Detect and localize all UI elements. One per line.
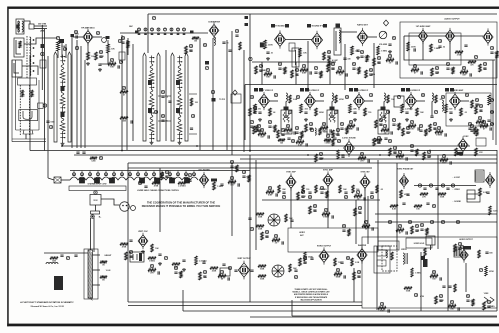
- callout blob: [305, 88, 309, 92]
- wire: [212, 38, 214, 150]
- part callout: [408, 220, 411, 224]
- capacitor: [435, 188, 438, 189]
- wire: [153, 171, 155, 177]
- part callout: [462, 66, 465, 70]
- slug adjust: [148, 108, 152, 113]
- part callout: [433, 122, 436, 126]
- svg-text:100K: 100K: [258, 217, 263, 219]
- part callout: [105, 172, 108, 176]
- svg-text:DAMPER: DAMPER: [358, 244, 367, 247]
- callout blob: [307, 24, 311, 28]
- part callout: [490, 122, 493, 126]
- picture tube CRT neck lines: [492, 60, 494, 140]
- svg-text:.01: .01: [275, 243, 278, 245]
- resistor: [320, 71, 322, 78]
- capacitor: [118, 65, 119, 68]
- resistor: [178, 181, 186, 184]
- part callout: [73, 172, 76, 176]
- tube V11 sync sep: [286, 173, 296, 190]
- part callout: [320, 186, 323, 190]
- capacitor: [358, 212, 361, 213]
- pilot lamp: [185, 178, 190, 183]
- wire: [12, 141, 46, 143]
- resistor: [334, 258, 336, 266]
- gang dashed line 2: [19, 85, 21, 135]
- balun coil left: [18, 21, 19, 32]
- socket housing: [131, 206, 136, 211]
- svg-text:← SOUND: ← SOUND: [452, 201, 461, 203]
- capacitor: [287, 138, 290, 139]
- wire: [25, 134, 27, 139]
- resistor: [161, 172, 164, 180]
- pilot lamp frame: [155, 178, 160, 183]
- RF tuner box: [14, 38, 24, 57]
- svg-text:.001: .001: [304, 108, 308, 110]
- part callout: [327, 50, 330, 54]
- capacitor: [228, 277, 229, 280]
- wire B+ bus 1: [62, 145, 470, 147]
- capacitor: [320, 192, 323, 193]
- capacitor: [450, 161, 451, 164]
- callout blob: [271, 24, 275, 28]
- svg-text:.05: .05: [357, 199, 360, 201]
- phase det cross 2: [272, 265, 284, 277]
- svg-text:115V: 115V: [93, 200, 98, 202]
- resistor: [320, 127, 328, 130]
- svg-text:1 MEG: 1 MEG: [325, 143, 331, 145]
- label blob 6SN7: [211, 179, 217, 182]
- svg-text:1500: 1500: [122, 121, 126, 123]
- resistor: [475, 106, 478, 114]
- tuning coil L2: [30, 45, 31, 53]
- resistor: [289, 264, 291, 272]
- capacitor: [438, 46, 441, 47]
- resistor: [430, 44, 433, 52]
- resistor: [180, 271, 182, 278]
- junction: [429, 150, 431, 152]
- wire top bus: [148, 13, 497, 15]
- wire: [87, 43, 89, 53]
- part callout: [319, 152, 322, 156]
- svg-text:39K: 39K: [353, 108, 357, 110]
- part callout: [169, 172, 172, 176]
- capacitor: [415, 230, 418, 231]
- part callout: [370, 195, 373, 199]
- part callout: [122, 86, 125, 90]
- svg-text:.01: .01: [389, 63, 392, 65]
- part callout: [228, 266, 231, 270]
- wire: [344, 44, 346, 90]
- capacitor: [310, 258, 313, 259]
- part callout: [468, 122, 471, 126]
- wire: [47, 56, 49, 150]
- capacitor: [470, 130, 473, 131]
- wire: [189, 93, 197, 95]
- resistor: [148, 269, 156, 272]
- junction: [379, 154, 381, 156]
- resistor: [269, 108, 272, 116]
- svg-text:1 MEG: 1 MEG: [436, 135, 442, 137]
- pilot lamp frame: [185, 178, 190, 183]
- resistor: [396, 229, 404, 232]
- part callout: [393, 146, 396, 150]
- wire: [373, 43, 375, 88]
- twin lead wire: [34, 28, 47, 30]
- resistor: [353, 272, 356, 280]
- resistor: [300, 104, 303, 113]
- capacitor: [344, 275, 345, 278]
- resistor: [445, 104, 448, 113]
- capacitor: [222, 264, 225, 265]
- peaking coil: [432, 93, 433, 101]
- resistor: [426, 228, 428, 235]
- junction: [249, 150, 251, 152]
- phase detector: [268, 214, 280, 226]
- callout blob: [285, 24, 289, 28]
- svg-text:VIDEO AMP: VIDEO AMP: [453, 89, 464, 92]
- resistor: [376, 185, 378, 193]
- svg-text:← VIDEO: ← VIDEO: [452, 189, 460, 191]
- resistor: [192, 36, 199, 39]
- resistor: [358, 157, 366, 160]
- wire: [414, 185, 476, 187]
- gang dashed line 3: [29, 85, 31, 135]
- svg-text:.01: .01: [270, 53, 273, 55]
- svg-text:SYNC AMP: SYNC AMP: [323, 169, 334, 172]
- capacitor: [268, 135, 269, 138]
- part callout: [456, 220, 459, 224]
- svg-text:56K: 56K: [289, 218, 293, 220]
- resistor: [365, 70, 368, 78]
- part callout: [320, 93, 323, 97]
- svg-text:10K: 10K: [155, 248, 159, 250]
- capacitor: [391, 131, 392, 134]
- part callout: [451, 184, 454, 188]
- tube V4 ratio det: [357, 28, 368, 46]
- capacitor bus bypass: [82, 152, 85, 153]
- resistor: [300, 69, 308, 72]
- capacitor: [161, 120, 164, 121]
- part callout: [153, 172, 156, 176]
- capacitor: [377, 62, 380, 63]
- svg-text:6.8K: 6.8K: [268, 195, 273, 197]
- part callout: [364, 220, 367, 224]
- part callout: [314, 66, 317, 70]
- part callout: [450, 300, 453, 304]
- wire: [231, 31, 233, 155]
- vert linearity box: [220, 268, 230, 276]
- wire: [132, 44, 134, 141]
- part callout: [392, 36, 395, 40]
- svg-text:8.2K: 8.2K: [392, 209, 397, 211]
- resistor: [302, 185, 304, 193]
- wire: [376, 246, 378, 310]
- part callout: [380, 302, 383, 306]
- tube video IF stage: [305, 92, 316, 110]
- wire: [331, 101, 333, 116]
- capacitor: [353, 112, 356, 113]
- part callout: [250, 95, 253, 99]
- part callout: [138, 181, 141, 185]
- audio inner enclosure: [409, 33, 461, 65]
- capacitor: [250, 126, 253, 127]
- part callout: [427, 150, 430, 154]
- svg-text:YOKE: YOKE: [484, 293, 490, 295]
- small transformer box: [467, 194, 480, 202]
- callout blob: [450, 88, 454, 92]
- capacitor: [60, 255, 63, 256]
- wire: [16, 40, 21, 54]
- wire: [73, 36, 83, 38]
- resistor: [315, 154, 318, 162]
- resistor: [50, 256, 58, 259]
- part callout: [334, 110, 337, 114]
- wire: [341, 31, 357, 33]
- resistor: [274, 125, 276, 132]
- capacitor: [364, 197, 365, 200]
- svg-text:HORIZ OUTPUT: HORIZ OUTPUT: [317, 246, 332, 248]
- part callout: [257, 124, 260, 128]
- capacitor: [295, 132, 298, 133]
- resistor: [373, 58, 376, 66]
- svg-text:CHANNEL INPUT CONV: CHANNEL INPUT CONV: [87, 183, 107, 186]
- wire: [290, 187, 292, 228]
- part callout: [242, 170, 245, 174]
- width coil: [403, 253, 404, 264]
- coupling box: [289, 43, 295, 51]
- tube V8 sound det: [344, 139, 355, 157]
- svg-text:27K: 27K: [479, 152, 483, 154]
- part callout: [205, 66, 208, 70]
- wire: [129, 171, 131, 177]
- callout blob: [254, 88, 258, 92]
- part callout: [145, 172, 148, 176]
- svg-text:.05: .05: [339, 75, 342, 77]
- svg-text:68: 68: [273, 112, 275, 114]
- resistor: [334, 273, 342, 276]
- part callout: [460, 245, 463, 249]
- part callout: [324, 208, 327, 212]
- ratio detector transformer T6: [334, 28, 341, 55]
- svg-text:100: 100: [91, 56, 94, 58]
- part callout: [188, 173, 191, 177]
- resistor: [301, 131, 303, 138]
- resistor: [249, 108, 252, 116]
- callout blob: [445, 88, 449, 92]
- svg-text:2.2 MEG: 2.2 MEG: [405, 108, 413, 110]
- balun coil right: [22, 21, 23, 32]
- part callout: [441, 220, 444, 224]
- part callout: [41, 52, 44, 56]
- part callout: [438, 39, 441, 43]
- capacitor: [448, 286, 451, 287]
- horiz control box: [406, 238, 432, 248]
- capacitor: [268, 126, 271, 127]
- wire: [250, 316, 497, 318]
- part callout: [152, 16, 155, 20]
- part callout: [220, 270, 223, 274]
- svg-text:470K: 470K: [411, 45, 416, 48]
- width assembly box: [378, 241, 399, 250]
- connector box: [231, 94, 241, 103]
- capacitor: [344, 192, 347, 193]
- resistor: [190, 98, 192, 106]
- junction: [61, 145, 63, 147]
- wire: [41, 25, 43, 90]
- part callout: [235, 29, 238, 33]
- part callout: [490, 98, 493, 102]
- resistor: [354, 195, 362, 198]
- part callout: [419, 124, 422, 128]
- svg-text:SYNC INV: SYNC INV: [361, 172, 371, 174]
- part callout: [177, 172, 180, 176]
- wire: [161, 171, 163, 177]
- wire: [24, 38, 57, 44]
- test point diamond 2: [233, 90, 237, 95]
- capacitor: [189, 50, 192, 51]
- resistor: [258, 133, 266, 136]
- part callout: [331, 62, 334, 66]
- tube video IF stage: [259, 92, 270, 110]
- tube V17 damper: [357, 246, 367, 263]
- capacitor: [388, 309, 389, 312]
- svg-text:68: 68: [221, 279, 223, 281]
- wire: [189, 133, 197, 135]
- resistor: [256, 125, 258, 132]
- resistor: [386, 59, 394, 62]
- wire: [368, 36, 377, 38]
- wire: [81, 171, 83, 177]
- part callout: [191, 114, 194, 118]
- resistor: [324, 138, 331, 141]
- svg-text:270K: 270K: [457, 55, 462, 57]
- part callout: [388, 54, 391, 58]
- resistor: [348, 229, 350, 236]
- part callout: [336, 268, 339, 272]
- ground: [353, 118, 357, 121]
- part callout: [413, 64, 416, 68]
- wire: [73, 171, 75, 177]
- resistor: [228, 181, 236, 184]
- pilot lamp: [140, 178, 145, 183]
- part callout: [357, 270, 360, 274]
- ratio det coil: [339, 30, 340, 43]
- part callout: [211, 90, 214, 94]
- part callout: [308, 195, 311, 199]
- wire: [128, 167, 372, 169]
- capacitor: [301, 196, 304, 197]
- svg-text:10K: 10K: [391, 99, 395, 101]
- tube V7 audio out: [483, 28, 493, 45]
- part callout: [420, 223, 423, 227]
- capacitor: [248, 218, 251, 219]
- resistor: [471, 100, 474, 108]
- part callout: [344, 195, 347, 199]
- part callout: [230, 160, 233, 164]
- resistor: [402, 128, 405, 136]
- resistor: [299, 258, 302, 266]
- svg-text:VERT OSC: VERT OSC: [138, 231, 148, 233]
- capacitor: [336, 134, 339, 135]
- capacitor: [282, 241, 283, 244]
- resistor: [31, 90, 34, 97]
- capacitor: [487, 120, 490, 121]
- capacitor: [372, 227, 373, 230]
- wire: [422, 41, 424, 60]
- capacitor: [458, 248, 461, 249]
- inner box 2: [377, 260, 386, 266]
- wire: [375, 221, 497, 223]
- part callout: [274, 234, 277, 238]
- resistor: [468, 60, 476, 63]
- wire: [158, 95, 171, 97]
- part callout: [346, 256, 349, 260]
- part callout: [253, 106, 256, 110]
- part callout: [278, 62, 281, 66]
- capacitor: [470, 73, 471, 76]
- resistor: [472, 299, 474, 306]
- wire line cord: [90, 218, 92, 250]
- svg-text:500: 500: [489, 253, 492, 255]
- antenna balun T1: [16, 19, 24, 34]
- wire: [65, 44, 67, 58]
- part callout: [154, 110, 157, 114]
- resistor: [375, 120, 378, 128]
- resistor: [100, 275, 107, 278]
- wire: [329, 62, 331, 85]
- resistor: [261, 232, 264, 240]
- wire: [262, 199, 380, 201]
- resistor: [378, 307, 386, 310]
- svg-text:47: 47: [123, 94, 125, 97]
- wire: [61, 179, 70, 181]
- svg-text:3K: 3K: [102, 265, 105, 267]
- resistor: [337, 150, 340, 159]
- capacitor: [370, 192, 373, 193]
- capacitor: [294, 131, 295, 134]
- resistor: [284, 67, 286, 74]
- part callout: [203, 270, 206, 274]
- wire: [375, 213, 497, 215]
- svg-text:RATIO DET: RATIO DET: [357, 24, 368, 27]
- callout blob: [401, 88, 405, 92]
- resistor: [489, 206, 492, 215]
- wire: [199, 38, 201, 150]
- junction: [33, 70, 35, 72]
- svg-text:10K: 10K: [410, 129, 414, 131]
- capacitor: [421, 71, 422, 74]
- part callout: [250, 120, 253, 124]
- svg-text:TO PIX: TO PIX: [219, 99, 226, 101]
- pilot lamp frame: [170, 178, 175, 183]
- part callout: [474, 55, 477, 59]
- part callout: [303, 256, 306, 260]
- resistor R4: [87, 52, 90, 60]
- svg-text:150: 150: [368, 112, 371, 114]
- tube V10 AGC: [199, 172, 208, 188]
- peaking coil: [332, 93, 333, 101]
- svg-text:10K: 10K: [110, 67, 114, 69]
- part callout: [301, 190, 304, 194]
- capacitor: [468, 128, 471, 129]
- video output coil: [442, 100, 443, 111]
- capacitor: [151, 34, 154, 35]
- wire: [465, 263, 467, 292]
- resistor: [336, 71, 344, 74]
- part callout: [230, 176, 233, 180]
- svg-text:18K: 18K: [349, 129, 353, 131]
- ground: [449, 118, 453, 121]
